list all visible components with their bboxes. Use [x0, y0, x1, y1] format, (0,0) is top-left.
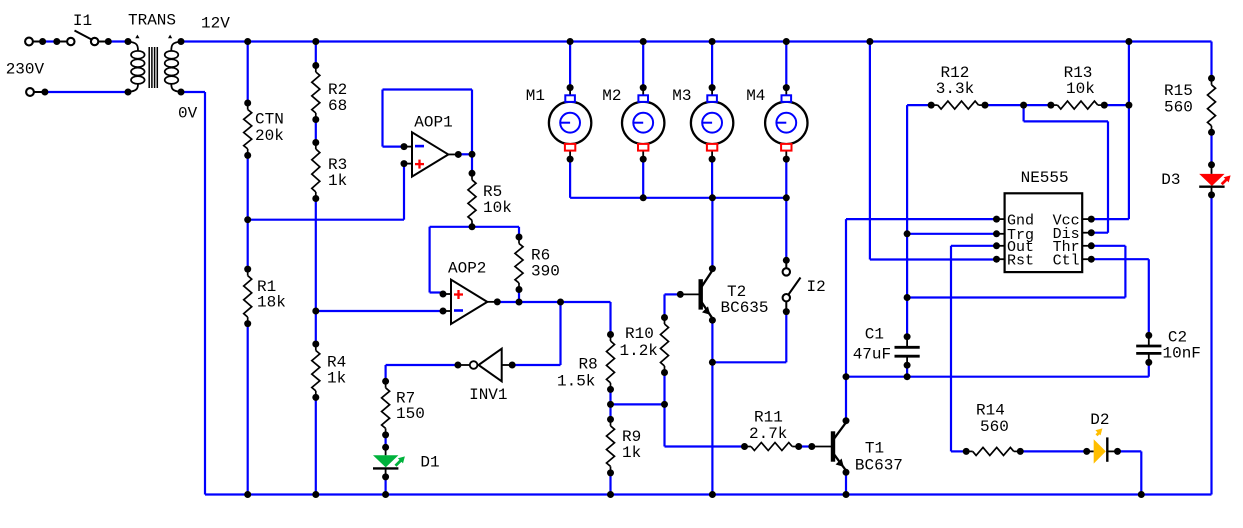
junction bottom rail / R9 — [607, 491, 614, 498]
terminal mains top — [25, 38, 46, 46]
wire 0V down left edge — [204, 92, 206, 495]
wire Trg horizontal — [907, 233, 996, 235]
svg-text:R11: R11 — [754, 409, 783, 427]
svg-text:3.3k: 3.3k — [936, 80, 974, 98]
wire CTN tap vertical to AOP1+ — [403, 164, 405, 220]
junction R13 / Vcc riser — [1125, 102, 1132, 109]
inverter INV1 — [454, 349, 515, 404]
wire R12 R13 link — [985, 104, 1051, 106]
wire mains top feed b — [108, 40, 130, 42]
wire CTN tap horizontal — [248, 219, 404, 221]
IC U1 NE555 — [993, 169, 1095, 272]
transistor T1 BC637 — [808, 417, 903, 476]
wire R2 to R3 — [315, 120, 317, 143]
wire Ctl vertical to C2 — [1148, 259, 1150, 335]
svg-text:1.5k: 1.5k — [557, 373, 595, 391]
wire R14 to D2 — [1020, 450, 1086, 452]
wire R5 bottom horizontal — [430, 226, 519, 228]
wire Trg R12 C1 vertical — [906, 105, 908, 337]
motor M3 — [672, 84, 733, 163]
svg-text:I1: I1 — [73, 12, 92, 30]
resistor R10 — [620, 314, 669, 376]
junction bottom rail / R1 — [244, 491, 251, 498]
wire Out horizontal — [951, 245, 997, 247]
wire Dis tap up — [1022, 105, 1024, 121]
svg-text:20k: 20k — [255, 127, 284, 145]
svg-text:M4: M4 — [746, 87, 765, 105]
svg-text:230V: 230V — [6, 61, 45, 79]
wire to T2 base — [665, 293, 681, 295]
junction CTN tap — [244, 216, 251, 223]
svg-text:I2: I2 — [807, 278, 826, 296]
svg-text:0V: 0V — [178, 105, 198, 123]
wire 0V to corner — [181, 91, 205, 93]
wire M2 top — [642, 42, 644, 88]
LED D1 green — [373, 444, 440, 481]
wire Ctl stub — [1091, 258, 1149, 260]
junction INV branch T — [557, 299, 564, 306]
svg-text:BC635: BC635 — [721, 299, 769, 317]
junction feedback R5 T — [469, 151, 476, 158]
svg-text:T1: T1 — [865, 440, 884, 458]
junction 12V rail / Vcc riser — [1125, 38, 1132, 45]
junction 12V rail / M3 — [709, 38, 716, 45]
wire R6 bottom link — [518, 290, 520, 303]
wire CTN to R1 — [247, 155, 249, 269]
wire feedback down — [381, 90, 383, 147]
capacitor C1 47uF — [853, 326, 920, 369]
wire M2 bottom — [642, 159, 644, 198]
wire rail to CTN — [247, 42, 249, 104]
junction motor rail / M3 / T2 collector — [709, 194, 716, 201]
wire feedback up — [471, 90, 473, 155]
wire Rst vertical from 12V — [869, 42, 871, 260]
wire Out vertical — [950, 246, 952, 452]
svg-text:R10: R10 — [625, 325, 654, 343]
junction 12V rail / M4 — [783, 38, 790, 45]
svg-text:NE555: NE555 — [1021, 169, 1069, 187]
svg-text:560: 560 — [1164, 99, 1193, 117]
wire T1 emitter to rail — [845, 475, 847, 494]
wire R8 R10 link — [611, 403, 665, 405]
resistor R4 — [312, 341, 346, 401]
wire Out to R14 — [951, 450, 966, 452]
svg-text:1k: 1k — [327, 370, 346, 388]
resistor R7 — [382, 378, 425, 439]
svg-text:R14: R14 — [976, 402, 1005, 420]
wire node down — [663, 404, 665, 446]
wire M4 top — [785, 42, 787, 88]
junction cap rail / Gnd riser — [843, 373, 850, 380]
wire NE555 Gnd vertical / T1 collector — [845, 219, 847, 421]
wire M1 top — [569, 42, 571, 88]
LED D2 amber — [1083, 411, 1121, 464]
resistor R9 — [607, 416, 642, 477]
wire AOP1 out to feedback T — [458, 153, 473, 155]
junction Trg tap — [904, 230, 911, 237]
svg-text:M2: M2 — [602, 87, 621, 105]
motor M1 — [526, 84, 592, 163]
wire node to R11 — [665, 445, 745, 447]
svg-text:10nF: 10nF — [1163, 345, 1201, 363]
svg-text:Ctl: Ctl — [1053, 252, 1080, 269]
svg-text:AOP2: AOP2 — [448, 260, 486, 278]
wire Rst horizontal — [870, 258, 997, 260]
wire rail to R2 — [315, 42, 317, 66]
wire capacitor ground rail — [846, 376, 1149, 378]
wire feedback to AOP1- — [383, 146, 405, 148]
transformer TRANS — [125, 11, 185, 95]
resistor R6 — [515, 234, 560, 294]
junction Thr tap — [904, 294, 911, 301]
wire Vcc vertical — [1128, 42, 1130, 220]
wire mains top feed a — [42, 40, 58, 42]
wire Dis vertical — [1107, 121, 1109, 232]
wire to R6 top — [518, 227, 520, 237]
transistor T2 BC635 — [677, 265, 769, 324]
resistor R14 — [963, 402, 1024, 456]
svg-text:1.2k: 1.2k — [620, 342, 658, 360]
terminal mains bottom — [26, 88, 48, 96]
wire R7 to D1 — [385, 435, 387, 447]
resistor R2 — [312, 62, 347, 123]
resistor R11 — [741, 409, 802, 451]
wire INV1 out to R7 corner — [386, 364, 458, 366]
junction bottom rail / D1 — [382, 491, 389, 498]
svg-text:D2: D2 — [1090, 411, 1109, 429]
svg-text:68: 68 — [328, 97, 347, 115]
svg-text:M3: M3 — [672, 87, 691, 105]
wire R8 to R9 — [609, 389, 611, 419]
resistor R5 — [468, 170, 512, 231]
wire D2 down to rail — [1140, 451, 1142, 494]
wire out down to R8 — [609, 302, 611, 335]
svg-text:47uF: 47uF — [853, 346, 891, 364]
wire NE555 Gnd horizontal — [846, 218, 997, 220]
svg-text:AOP1: AOP1 — [414, 114, 452, 132]
junction 12V rail / R2 — [312, 38, 319, 45]
wire R4 to bottom rail — [315, 397, 317, 494]
svg-text:10k: 10k — [483, 199, 512, 217]
svg-text:M1: M1 — [526, 87, 545, 105]
wire R13 right link — [1104, 104, 1129, 106]
resistor CTN — [244, 100, 284, 159]
resistor R8 — [557, 331, 615, 393]
switch I1 — [53, 12, 112, 45]
svg-text:12V: 12V — [201, 14, 230, 32]
wire I2 bypass horizontal — [712, 361, 786, 363]
wire I2 bypass vertical — [785, 312, 787, 363]
wire R11 to T1 base — [799, 445, 812, 447]
junction T2 emitter / I2 bypass — [709, 359, 716, 366]
wire Vcc stub — [1091, 218, 1129, 220]
wire Dis horizontal high — [1024, 120, 1108, 122]
wire R10 top link — [663, 294, 665, 317]
wire R15 to D3 — [1210, 132, 1212, 165]
junction motor rail / M4 / I2 — [783, 194, 790, 201]
wire bottom 0V rail — [205, 493, 1212, 495]
resistor R1 — [244, 266, 286, 328]
svg-text:150: 150 — [396, 405, 425, 423]
svg-text:C1: C1 — [865, 326, 884, 344]
junction R8 R9 T — [607, 401, 614, 408]
wire inv branch down — [559, 302, 561, 365]
wire R12 left link — [907, 104, 931, 106]
motor M2 — [602, 84, 664, 163]
wire T2 collector up — [711, 198, 713, 269]
wire divider tap to AOP2- — [316, 310, 443, 312]
resistor R12 — [928, 64, 989, 109]
svg-text:18k: 18k — [257, 294, 286, 312]
junction 12V rail / Rst riser — [866, 38, 873, 45]
junction cap rail / C1 — [904, 373, 911, 380]
junction bottom rail / R4 — [312, 491, 319, 498]
wire R1 to bottom rail — [247, 324, 249, 495]
junction 12V rail / M2 — [640, 38, 647, 45]
svg-text:560: 560 — [980, 418, 1009, 436]
wire C1 bottom link — [906, 365, 908, 377]
wire R9 to bottom rail — [609, 473, 611, 495]
wire Dis stub — [1091, 232, 1108, 234]
wire M1 bottom — [569, 159, 571, 198]
wire feedback top — [383, 88, 473, 90]
wire Thr vertical — [1124, 246, 1126, 298]
wire M3 top — [711, 42, 713, 88]
svg-text:390: 390 — [531, 263, 560, 281]
junction 12V rail / M1 — [567, 38, 574, 45]
svg-text:2.7k: 2.7k — [749, 425, 787, 443]
wire into AOP2+ — [430, 291, 444, 293]
wire down to R7 — [385, 365, 387, 381]
svg-text:INV1: INV1 — [469, 386, 507, 404]
wire M4 bottom — [785, 159, 787, 198]
wire 12V rail corner to R15 — [1210, 42, 1212, 79]
op-amp AOP2 — [440, 260, 501, 325]
wire M3 bottom — [711, 159, 713, 198]
wire 12V rail — [181, 40, 1212, 42]
svg-text:1k: 1k — [328, 172, 347, 190]
wire right riser D3 to rail — [1210, 195, 1212, 495]
junction R6 output T — [516, 299, 523, 306]
capacitor C2 10nF — [1136, 329, 1201, 366]
wire I2 top — [785, 198, 787, 260]
svg-text:CTN: CTN — [255, 111, 284, 129]
wire T to R5 — [471, 154, 473, 173]
junction motor rail / M2 — [640, 194, 647, 201]
switch I2 — [783, 257, 826, 315]
wire inv branch to INV1 in — [512, 364, 561, 366]
wire C2 bottom link — [1148, 362, 1150, 376]
motor M4 — [746, 84, 807, 163]
svg-text:D3: D3 — [1161, 171, 1180, 189]
svg-text:Rst: Rst — [1007, 252, 1034, 269]
resistor R15 — [1164, 75, 1216, 136]
wire D1 to bottom rail — [385, 477, 387, 495]
LED D3 red — [1161, 161, 1230, 198]
svg-text:10k: 10k — [1066, 80, 1095, 98]
svg-text:D1: D1 — [420, 454, 439, 472]
svg-text:R8: R8 — [579, 356, 598, 374]
op-amp AOP1 — [401, 114, 462, 177]
svg-text:R15: R15 — [1164, 82, 1193, 100]
svg-text:TRANS: TRANS — [128, 11, 176, 29]
svg-text:1k: 1k — [622, 444, 641, 462]
wire R3 to R4 — [315, 199, 317, 345]
wire R10 bottom link — [663, 373, 665, 405]
wire D2 right — [1118, 450, 1142, 452]
wire motor bottom rail — [570, 197, 786, 199]
resistor R3 — [312, 139, 347, 202]
wire Thr stub — [1091, 245, 1125, 247]
wire Thr horizontal — [907, 296, 1125, 298]
wire mains bottom feed — [44, 91, 128, 93]
junction R12 R13 / Dis tap — [1020, 102, 1027, 109]
wire T2 emitter down — [711, 321, 713, 494]
junction divider tap — [312, 308, 319, 315]
wire down to AOP1+ node — [429, 227, 431, 293]
junction 12V rail / CTN — [244, 38, 251, 45]
wire AOP2 out horizontal — [496, 301, 611, 303]
junction bottom rail / T2 emitter — [709, 491, 716, 498]
junction bottom rail / T1 emitter — [843, 491, 850, 498]
junction R10 bottom T — [661, 401, 668, 408]
svg-text:BC637: BC637 — [855, 457, 903, 475]
resistor R13 — [1047, 64, 1107, 109]
junction bottom rail / D2 — [1138, 491, 1145, 498]
